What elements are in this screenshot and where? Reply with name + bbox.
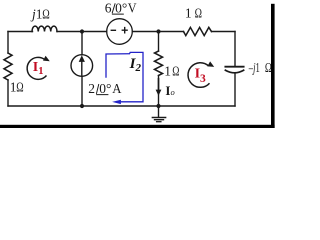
wire right branch upper bbox=[234, 32, 236, 66]
current source arrow bbox=[79, 55, 85, 75]
wire top-left bbox=[8, 31, 33, 33]
junction dot bottom current-source bbox=[80, 104, 84, 108]
svg-text:1: 1 bbox=[164, 64, 171, 79]
current source branch wire upper bbox=[81, 32, 83, 55]
junction dot top middle-resistor bbox=[156, 29, 160, 33]
mesh current loop I2 blue arrowhead bbox=[112, 100, 121, 104]
voltage source V1 6/0 V bbox=[107, 19, 133, 45]
mesh current loop I3 arc bbox=[188, 63, 209, 88]
voltage source minus sign bbox=[111, 29, 117, 31]
resistor R3 1 ohm middle branch bbox=[158, 32, 160, 52]
wire inductor to voltage source bbox=[57, 31, 107, 33]
svg-text:A: A bbox=[112, 81, 121, 96]
resistor R2 1 ohm top bbox=[184, 27, 212, 35]
mesh current loop I3 arrowhead bbox=[207, 61, 214, 67]
voltage source plus sign bbox=[122, 27, 128, 34]
svg-text:Ω: Ω bbox=[195, 5, 202, 20]
arrow Io on middle branch bbox=[156, 78, 162, 96]
mesh current loop I1 arrowhead bbox=[43, 56, 50, 62]
svg-text:Ω: Ω bbox=[16, 79, 23, 94]
svg-text:2: 2 bbox=[88, 81, 95, 96]
wire bottom bbox=[8, 105, 235, 107]
svg-text:Ω: Ω bbox=[42, 6, 50, 21]
svg-text:6: 6 bbox=[105, 0, 112, 15]
mesh current loop I1 arc bbox=[27, 57, 46, 79]
current source I 2/0 A bbox=[71, 55, 93, 77]
wire right branch lower bbox=[234, 73, 236, 106]
mesh current loop I2 blue path bbox=[106, 52, 143, 101]
svg-text:Ω: Ω bbox=[172, 64, 179, 79]
inductor L1 j1 ohm bbox=[32, 26, 57, 31]
current source branch wire lower bbox=[81, 76, 83, 106]
resistor R1 1 ohm left bbox=[7, 32, 9, 54]
svg-text:0°: 0° bbox=[99, 81, 111, 96]
wire resistor to right corner bbox=[212, 31, 236, 33]
svg-text:1: 1 bbox=[185, 5, 192, 20]
junction dot top current-source bbox=[80, 29, 84, 33]
svg-text:Ω: Ω bbox=[265, 60, 272, 75]
svg-text:–j1: –j1 bbox=[248, 60, 260, 75]
capacitor C1 -j1 ohm bbox=[225, 66, 243, 68]
ground bbox=[158, 106, 160, 117]
wire voltage source to top-right corner bbox=[133, 31, 184, 33]
svg-text:j1: j1 bbox=[30, 6, 43, 21]
svg-text:V: V bbox=[128, 0, 137, 15]
svg-text:0°: 0° bbox=[115, 0, 127, 15]
junction dot bottom ground bbox=[156, 104, 160, 108]
